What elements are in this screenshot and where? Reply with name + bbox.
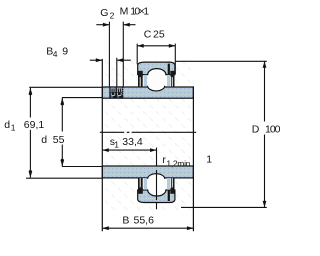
svg-text:D: D — [252, 124, 260, 136]
seal right (top half) — [170, 71, 174, 87]
svg-text:9: 9 — [62, 46, 68, 58]
outer ring bottom seal slot (right) — [168, 190, 170, 201]
dimension G2: extension lines — [108, 22, 110, 87]
svg-text:55: 55 — [53, 134, 65, 146]
seal left (bottom half) — [138, 178, 143, 194]
svg-text:C: C — [144, 28, 152, 40]
dimension B4: extension line (screw centre) — [116, 58, 118, 87]
dimension s1: line and arrows — [102, 149, 156, 151]
dimension d1: bottom reference line — [26, 177, 102, 179]
seal right (bottom half) — [170, 178, 174, 194]
dimension B: line and arrows — [102, 227, 193, 229]
svg-text:25: 25 — [153, 28, 165, 40]
svg-text:d: d — [41, 134, 47, 146]
wire: center axis line — [100, 131, 124, 133]
dimension B4: arrows — [90, 59, 102, 61]
dimension d1: top reference line — [29, 86, 102, 88]
inner ring bottom raceway groove — [148, 174, 165, 179]
dimension G2: arrows — [96, 24, 109, 26]
svg-text:4: 4 — [53, 49, 58, 59]
dimension d: top reference line — [62, 97, 102, 99]
cage strip right (top half) — [167, 75, 170, 87]
svg-text:33,4: 33,4 — [122, 136, 143, 148]
dimension d: vertical line with arrows — [61, 98, 63, 132]
grub screw — [109, 86, 124, 98]
inner ring top raceway groove — [148, 86, 165, 91]
cage strip left (top half) — [144, 75, 147, 87]
outer ring bottom — [138, 190, 175, 203]
svg-text:d: d — [4, 119, 10, 131]
ball-plane center line through bottom ball — [156, 170, 158, 200]
dimension D: top reference line — [175, 60, 266, 62]
dimension C: extension lines — [136, 44, 138, 65]
svg-text:69,1: 69,1 — [24, 119, 45, 131]
dimension D: bottom reference line — [181, 206, 267, 208]
svg-text:1,2min: 1,2min — [166, 158, 190, 168]
svg-text:1: 1 — [206, 154, 212, 166]
cage strip left (bottom half) — [144, 178, 147, 190]
seal left (top half) — [138, 71, 143, 87]
dimension d: bottom reference line — [62, 166, 102, 168]
svg-text:M: M — [120, 6, 128, 18]
cage strip right (bottom half) — [167, 178, 170, 190]
svg-text:1: 1 — [114, 139, 119, 149]
node: ball-plane center line (s1 extension) — [156, 148, 158, 210]
svg-text:2: 2 — [110, 11, 115, 21]
dimension d1: vertical line with arrows — [29, 88, 31, 118]
svg-text:10×1: 10×1 — [130, 6, 149, 18]
svg-text:55,6: 55,6 — [134, 214, 155, 226]
ball bottom (white blob incl. raceway gaps) — [147, 175, 167, 196]
svg-text:1: 1 — [11, 122, 16, 132]
outer ring top seal slot (right) — [168, 64, 170, 75]
inner ring top bar — [102, 87, 193, 98]
dimension D: vertical line with arrows — [264, 61, 266, 121]
svg-text:G: G — [100, 7, 108, 19]
wire: right face extension line — [192, 86, 194, 231]
svg-text:100: 100 — [265, 124, 281, 136]
wire: left face extension line — [101, 59, 103, 231]
svg-text:B: B — [122, 214, 129, 226]
dimension C: line and arrows — [137, 45, 175, 47]
ball top (white blob incl. raceway gaps) — [147, 69, 167, 90]
inner ring bottom bar — [102, 166, 193, 178]
faint hatch background of drawing area — [103, 60, 194, 213]
outer ring top — [138, 62, 175, 75]
